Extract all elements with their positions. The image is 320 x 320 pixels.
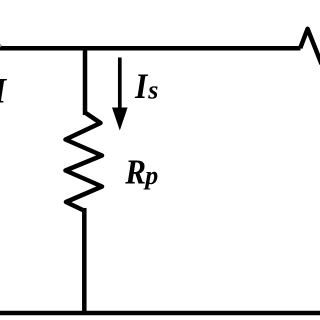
- svg-text:I: I: [134, 67, 149, 106]
- wire from top bus down to resistor Rp: [83, 46, 88, 115]
- svg-text:p: p: [143, 161, 158, 190]
- wire bottom horizontal bus: [0, 311, 320, 316]
- svg-text:s: s: [147, 76, 158, 105]
- partial label (clipped at left edge): [0, 72, 8, 111]
- wire top horizontal bus: [0, 46, 301, 51]
- svg-text:R: R: [124, 153, 146, 192]
- label Rp: [124, 153, 146, 192]
- resistor Rs (partial, clipped at right edge): [300, 29, 320, 64]
- wire from resistor Rp down to bottom bus: [82, 208, 87, 315]
- wire stub clipped at top-left edge: [0, 41, 1, 47]
- current arrow Is (head): [112, 108, 128, 131]
- resistor Rp zigzag body: [66, 113, 103, 211]
- current arrow Is (shaft): [118, 58, 122, 112]
- label Is: [134, 67, 149, 106]
